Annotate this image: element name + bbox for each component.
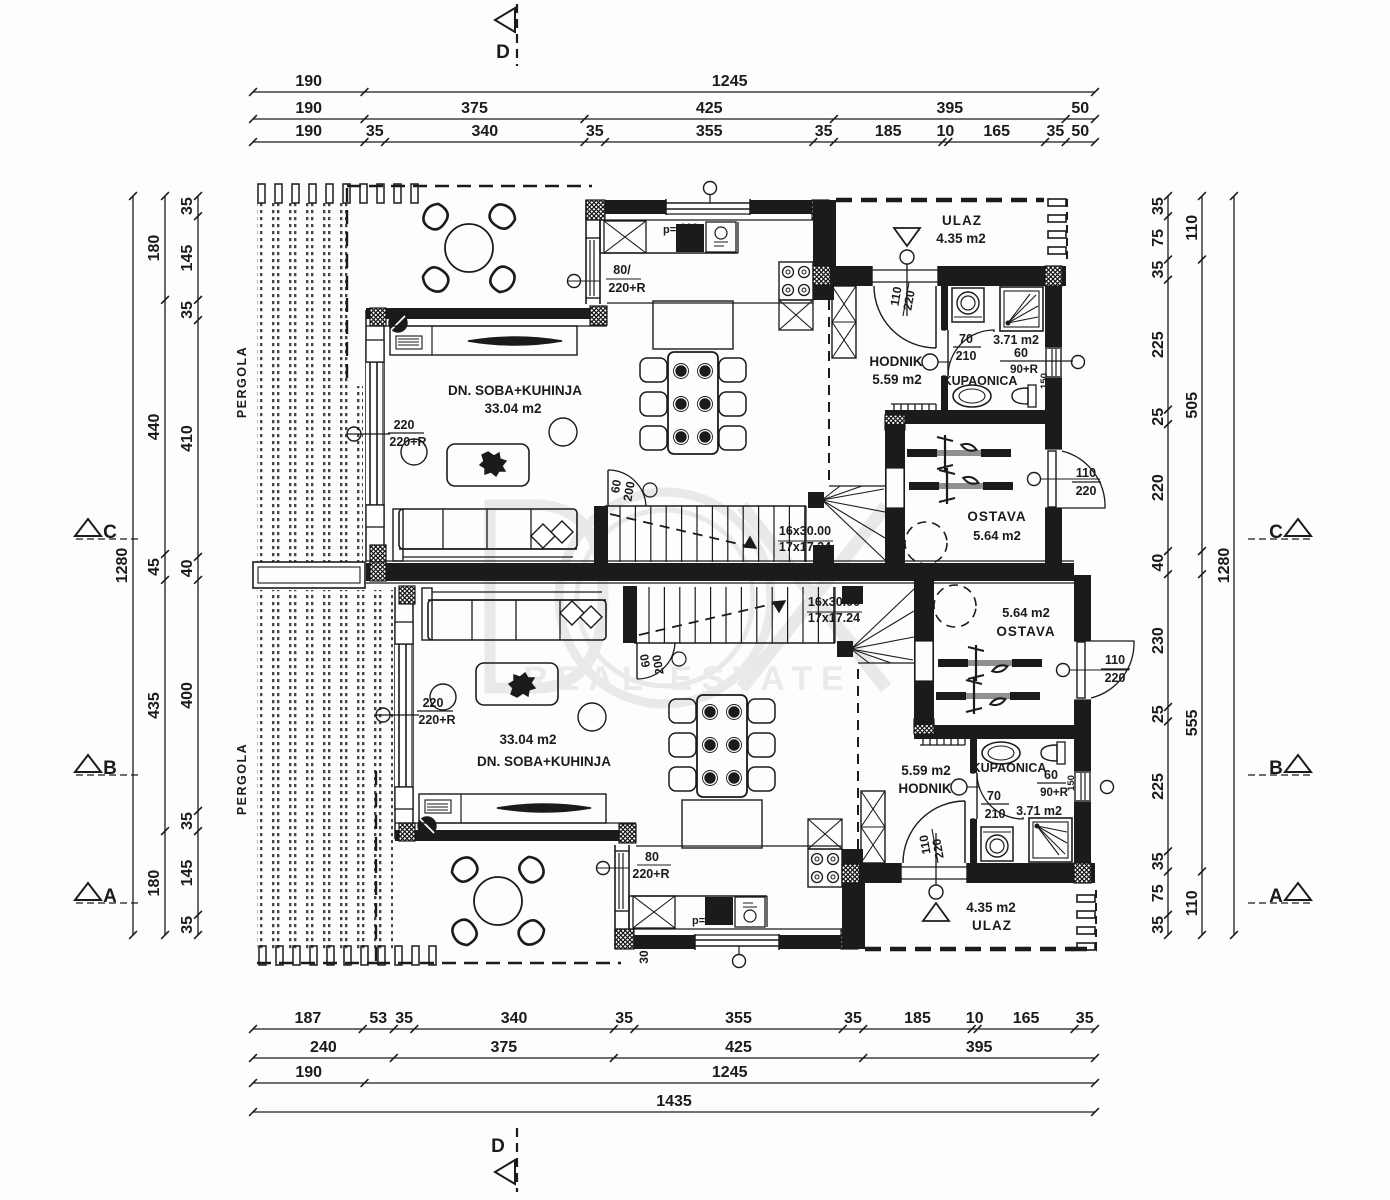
- svg-text:505: 505: [1184, 392, 1201, 419]
- svg-text:5.59 m2: 5.59 m2: [872, 372, 922, 387]
- svg-text:10: 10: [966, 1010, 984, 1027]
- svg-text:17x17.24: 17x17.24: [808, 611, 860, 625]
- svg-text:35: 35: [1150, 261, 1167, 279]
- svg-text:400: 400: [179, 682, 196, 709]
- svg-text:C: C: [1269, 522, 1283, 543]
- svg-text:70: 70: [959, 332, 973, 346]
- right dimension columns: [1167, 196, 1169, 935]
- svg-text:5.64 m2: 5.64 m2: [973, 528, 1021, 543]
- section marker C left: [75, 519, 101, 536]
- bottom ulaz dashed extension: [1071, 947, 1097, 952]
- section marker D top: [495, 8, 515, 32]
- svg-text:A: A: [103, 886, 117, 907]
- svg-text:110: 110: [1105, 653, 1125, 667]
- watermark DUX REAL ESTATE: [490, 492, 886, 704]
- svg-text:ULAZ: ULAZ: [942, 213, 982, 228]
- svg-text:355: 355: [696, 123, 723, 140]
- svg-text:35: 35: [615, 1010, 633, 1027]
- svg-text:375: 375: [461, 100, 488, 117]
- svg-text:PERGOLA: PERGOLA: [235, 743, 249, 815]
- svg-text:145: 145: [179, 860, 196, 887]
- svg-text:100: 100: [680, 222, 698, 234]
- left dimension columns: [132, 196, 134, 935]
- svg-text:220+R: 220+R: [389, 435, 426, 449]
- party wall between units: [366, 560, 1074, 562]
- svg-text:70: 70: [987, 789, 1001, 803]
- svg-text:16x30.00: 16x30.00: [808, 595, 860, 609]
- svg-text:33.04 m2: 33.04 m2: [484, 401, 541, 416]
- svg-text:225: 225: [1150, 331, 1167, 358]
- svg-text:HODNIK: HODNIK: [898, 781, 951, 796]
- svg-text:440: 440: [146, 413, 163, 440]
- svg-text:C: C: [103, 522, 117, 543]
- svg-text:3.71 m2: 3.71 m2: [993, 333, 1039, 347]
- top dimension rows: [253, 91, 1095, 93]
- svg-text:D: D: [496, 42, 510, 63]
- svg-text:210: 210: [985, 807, 1006, 821]
- svg-text:190: 190: [295, 73, 322, 90]
- svg-text:35: 35: [179, 197, 196, 215]
- svg-text:35: 35: [1047, 123, 1065, 140]
- svg-text:220+R: 220+R: [418, 713, 455, 727]
- svg-text:3.71 m2: 3.71 m2: [1016, 804, 1062, 818]
- svg-text:220: 220: [394, 418, 415, 432]
- svg-text:145: 145: [179, 245, 196, 272]
- svg-text:75: 75: [1150, 229, 1167, 247]
- svg-text:35: 35: [586, 123, 604, 140]
- svg-text:187: 187: [295, 1010, 322, 1027]
- pergola beams top row: [258, 184, 265, 203]
- bottom dimension rows: [253, 1028, 1095, 1030]
- svg-text:1280: 1280: [1216, 548, 1233, 584]
- svg-text:165: 165: [983, 123, 1010, 140]
- svg-text:75: 75: [1150, 884, 1167, 902]
- svg-text:220+R: 220+R: [632, 867, 669, 881]
- svg-text:220: 220: [423, 696, 444, 710]
- section marker A right: [1285, 883, 1311, 900]
- svg-text:REAL ESTATE: REAL ESTATE: [523, 660, 852, 698]
- svg-text:150: 150: [1066, 775, 1077, 791]
- svg-text:150: 150: [1039, 373, 1050, 389]
- svg-text:35: 35: [1076, 1010, 1094, 1027]
- svg-text:60: 60: [1014, 346, 1028, 360]
- svg-text:OSTAVA: OSTAVA: [967, 509, 1026, 524]
- svg-text:225: 225: [1150, 773, 1167, 800]
- svg-text:35: 35: [179, 916, 196, 934]
- svg-text:80: 80: [645, 850, 659, 864]
- svg-text:p=: p=: [663, 224, 676, 236]
- svg-text:35: 35: [366, 123, 384, 140]
- svg-text:35: 35: [815, 123, 833, 140]
- svg-text:25: 25: [1150, 408, 1167, 426]
- svg-text:90+R: 90+R: [1040, 787, 1069, 799]
- section marker B left: [75, 755, 101, 772]
- svg-text:17x17.24: 17x17.24: [779, 540, 831, 554]
- svg-text:220: 220: [1076, 484, 1097, 498]
- svg-text:340: 340: [501, 1010, 528, 1027]
- svg-text:110: 110: [1184, 890, 1201, 916]
- svg-text:35: 35: [844, 1010, 862, 1027]
- svg-text:190: 190: [295, 123, 322, 140]
- svg-text:PERGOLA: PERGOLA: [235, 346, 249, 418]
- svg-text:5.59 m2: 5.59 m2: [901, 763, 951, 778]
- svg-text:1280: 1280: [114, 548, 131, 584]
- svg-text:B: B: [103, 758, 117, 779]
- pergola dotted paving top: [257, 202, 351, 386]
- svg-text:40: 40: [1150, 554, 1167, 572]
- svg-text:D: D: [491, 1136, 505, 1157]
- svg-text:210: 210: [956, 349, 977, 363]
- svg-text:395: 395: [936, 100, 963, 117]
- svg-text:25: 25: [1150, 705, 1167, 723]
- svg-text:220: 220: [1150, 474, 1167, 501]
- svg-text:425: 425: [725, 1039, 752, 1056]
- svg-text:185: 185: [904, 1010, 931, 1027]
- svg-text:110: 110: [1076, 466, 1096, 480]
- party wall junction hatches: [370, 562, 386, 581]
- svg-text:110: 110: [1184, 215, 1201, 241]
- svg-text:1245: 1245: [712, 1064, 748, 1081]
- svg-text:KUPAONICA: KUPAONICA: [943, 374, 1018, 388]
- pergola beams bottom row: [259, 946, 266, 965]
- svg-text:5.64 m2: 5.64 m2: [1002, 605, 1050, 620]
- svg-text:185: 185: [875, 123, 902, 140]
- svg-text:220: 220: [1105, 671, 1126, 685]
- svg-text:80/: 80/: [613, 263, 631, 277]
- svg-text:190: 190: [295, 1064, 322, 1081]
- svg-text:50: 50: [1071, 123, 1089, 140]
- svg-text:555: 555: [1184, 709, 1201, 736]
- svg-text:B: B: [1269, 758, 1283, 779]
- section marker B right: [1285, 755, 1311, 772]
- svg-text:410: 410: [179, 425, 196, 452]
- svg-text:375: 375: [490, 1039, 517, 1056]
- svg-text:16x30.00: 16x30.00: [779, 524, 831, 538]
- svg-text:230: 230: [1150, 627, 1167, 654]
- svg-text:60: 60: [1044, 768, 1058, 782]
- svg-text:DN. SOBA+KUHINJA: DN. SOBA+KUHINJA: [448, 383, 582, 398]
- svg-text:30: 30: [637, 950, 651, 964]
- svg-text:50: 50: [1071, 100, 1089, 117]
- svg-text:240: 240: [310, 1039, 337, 1056]
- svg-text:35: 35: [395, 1010, 413, 1027]
- svg-text:10: 10: [937, 123, 955, 140]
- svg-text:4.35 m2: 4.35 m2: [966, 900, 1016, 915]
- svg-text:220+R: 220+R: [608, 281, 645, 295]
- svg-text:35: 35: [1150, 197, 1167, 215]
- svg-text:35: 35: [179, 301, 196, 319]
- terrace slab left of party wall: [253, 562, 365, 588]
- svg-text:355: 355: [725, 1010, 752, 1027]
- svg-text:425: 425: [696, 100, 723, 117]
- section marker C right: [1285, 519, 1311, 536]
- bottom terrace dashed extension: [257, 962, 378, 964]
- svg-text:180: 180: [146, 870, 163, 897]
- svg-text:435: 435: [146, 692, 163, 719]
- svg-text:OSTAVA: OSTAVA: [996, 624, 1055, 639]
- svg-text:HODNIK: HODNIK: [869, 354, 922, 369]
- svg-text:1435: 1435: [656, 1093, 692, 1110]
- svg-text:35: 35: [1150, 852, 1167, 870]
- svg-text:DN. SOBA+KUHINJA: DN. SOBA+KUHINJA: [477, 754, 611, 769]
- svg-text:4.35 m2: 4.35 m2: [936, 231, 986, 246]
- svg-text:45: 45: [146, 558, 163, 576]
- svg-text:p=: p=: [692, 915, 705, 927]
- svg-text:395: 395: [966, 1039, 993, 1056]
- pergola dotted paving bottom: [257, 590, 393, 950]
- svg-text:33.04 m2: 33.04 m2: [499, 732, 556, 747]
- svg-text:A: A: [1269, 886, 1283, 907]
- svg-text:165: 165: [1013, 1010, 1040, 1027]
- svg-text:1245: 1245: [712, 73, 748, 90]
- svg-text:90+R: 90+R: [1010, 364, 1039, 376]
- svg-text:35: 35: [1150, 916, 1167, 934]
- svg-text:190: 190: [295, 100, 322, 117]
- svg-text:40: 40: [179, 559, 196, 577]
- svg-text:340: 340: [471, 123, 498, 140]
- svg-text:180: 180: [146, 235, 163, 262]
- svg-text:35: 35: [179, 812, 196, 830]
- svg-text:KUPAONICA: KUPAONICA: [972, 761, 1047, 775]
- section marker A left: [75, 883, 101, 900]
- svg-text:ULAZ: ULAZ: [972, 918, 1012, 933]
- svg-text:53: 53: [369, 1010, 387, 1027]
